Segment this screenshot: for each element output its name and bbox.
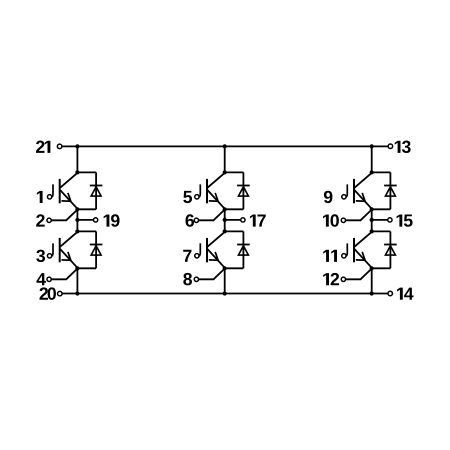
- pin 3 terminal: [47, 254, 51, 258]
- transistor Q6 (IGBT): [346, 232, 372, 269]
- pin 11 terminal: [342, 254, 346, 258]
- transistor Q5 (IGBT): [346, 173, 372, 210]
- wire leg 1 top segment: [76, 146, 78, 172]
- diode D1 (freewheel): [90, 172, 103, 209]
- pin 9 terminal: [342, 195, 346, 199]
- node emitter Q3: [223, 207, 227, 211]
- wire collector stub Q4: [225, 230, 244, 232]
- pin 4 terminal: [47, 277, 51, 281]
- diode D4 (freewheel): [237, 231, 250, 268]
- wire aux emitter pin 6: [199, 209, 225, 220]
- transistor Q3 (IGBT): [199, 173, 225, 210]
- junction DC- bus leg 2: [223, 291, 227, 295]
- diode D3 (freewheel): [237, 172, 250, 209]
- diode D5 (freewheel): [384, 172, 397, 209]
- pin 19 label: [104, 214, 120, 226]
- wire collector stub Q1: [77, 171, 96, 173]
- node phase output leg 1: [75, 218, 79, 222]
- wire emitter stub Q1: [77, 208, 96, 210]
- wire collector stub Q6: [372, 230, 391, 232]
- node emitter Q2: [75, 266, 79, 270]
- node phase output leg 2: [223, 218, 227, 222]
- node emitter Q1: [75, 207, 79, 211]
- pin 7 terminal: [195, 254, 199, 258]
- node collector Q5: [370, 170, 374, 174]
- wire emitter stub Q3: [225, 208, 244, 210]
- pin 21 terminal: [57, 144, 62, 149]
- node emitter Q6: [370, 266, 374, 270]
- pin 10 terminal: [341, 218, 345, 222]
- junction DC+ bus leg 2: [223, 144, 227, 148]
- junction DC- bus leg 1: [75, 291, 79, 295]
- junction DC- bus leg 3: [370, 291, 374, 295]
- transistor Q1 (IGBT): [51, 173, 77, 210]
- pin 19 terminal: [93, 218, 97, 222]
- node emitter Q4: [223, 266, 227, 270]
- wire collector stub Q5: [372, 171, 391, 173]
- pin 13 terminal: [388, 144, 393, 149]
- wire leg 3 middle segment: [371, 209, 373, 231]
- wire aux emitter pin 10: [346, 209, 372, 220]
- junction DC+ bus leg 3: [370, 144, 374, 148]
- pin 4 label: [37, 273, 46, 285]
- pin 7 label: [183, 250, 191, 262]
- wire emitter stub Q4: [225, 267, 244, 269]
- wire DC- bus (pin 20 to pin 14): [62, 293, 387, 295]
- pin 21 label: [36, 141, 50, 153]
- node emitter Q5: [370, 207, 374, 211]
- pin 2 label: [36, 214, 44, 226]
- node collector Q3: [223, 170, 227, 174]
- wire leg 1 bottom segment: [76, 268, 78, 293]
- transistor Q2 (IGBT): [51, 232, 77, 269]
- pin 15 label: [397, 214, 413, 226]
- wire leg 3 bottom segment: [371, 268, 373, 293]
- wire leg 2 bottom segment: [224, 268, 226, 293]
- pin 3 label: [36, 250, 45, 262]
- pin 12 terminal: [341, 277, 345, 281]
- pin 6 label: [186, 214, 195, 226]
- pin 20 label: [40, 287, 56, 299]
- wire aux emitter pin 12: [346, 268, 372, 279]
- pin 8 terminal: [194, 277, 198, 281]
- wire leg 2 top segment: [224, 146, 226, 172]
- wire emitter stub Q5: [372, 208, 391, 210]
- node collector Q1: [75, 170, 79, 174]
- pin 5 label: [183, 191, 192, 203]
- node collector Q4: [223, 229, 227, 233]
- wire phase output pin 15: [372, 219, 388, 221]
- pin 2 terminal: [47, 218, 51, 222]
- wire leg 1 middle segment: [76, 209, 78, 231]
- pin 8 label: [183, 273, 192, 285]
- pin 1 label: [37, 191, 43, 203]
- pin 17 terminal: [241, 218, 245, 222]
- wire aux emitter pin 8: [199, 268, 225, 279]
- wire aux emitter pin 2: [51, 209, 77, 220]
- pin 15 terminal: [388, 218, 392, 222]
- pin 11 label: [323, 250, 337, 262]
- wire emitter stub Q6: [372, 267, 391, 269]
- wire collector stub Q3: [225, 171, 244, 173]
- wire collector stub Q2: [77, 230, 96, 232]
- pin 1 terminal: [47, 195, 51, 199]
- wire DC+ bus (pin 21 to pin 13): [62, 145, 388, 147]
- wire emitter stub Q2: [77, 267, 96, 269]
- pin 9 label: [324, 191, 333, 203]
- pin 14 terminal: [388, 291, 393, 296]
- pin 14 label: [397, 288, 413, 300]
- pin 12 label: [323, 273, 339, 285]
- diode D6 (freewheel): [384, 231, 397, 268]
- transistor Q4 (IGBT): [199, 232, 225, 269]
- pin 20 terminal: [58, 291, 63, 296]
- wire leg 2 middle segment: [224, 209, 226, 231]
- pin 17 label: [250, 214, 266, 226]
- node phase output leg 3: [370, 218, 374, 222]
- pin 6 terminal: [194, 218, 198, 222]
- pin 10 label: [323, 214, 339, 226]
- wire phase output pin 19: [77, 219, 93, 221]
- node collector Q2: [75, 229, 79, 233]
- diode D2 (freewheel): [90, 231, 103, 268]
- wire aux emitter pin 4: [51, 268, 77, 279]
- pin 5 terminal: [195, 195, 199, 199]
- wire leg 3 top segment: [371, 146, 373, 172]
- wire phase output pin 17: [225, 219, 241, 221]
- junction DC+ bus leg 1: [75, 144, 79, 148]
- pin 13 label: [395, 141, 411, 153]
- node collector Q6: [370, 229, 374, 233]
